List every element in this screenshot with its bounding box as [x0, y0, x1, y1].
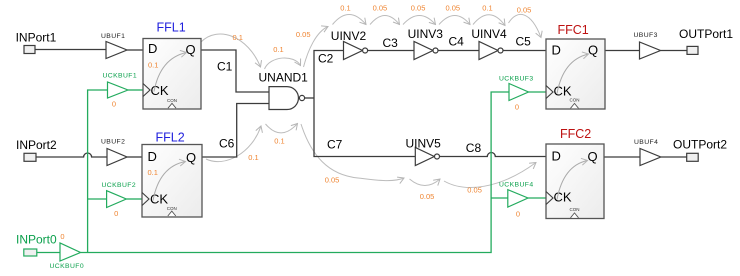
svg-text:0.1: 0.1: [148, 168, 158, 177]
svg-text:CK: CK: [150, 192, 168, 207]
svg-text:C1: C1: [217, 60, 233, 74]
svg-text:Q: Q: [588, 149, 598, 164]
svg-text:UCKBUF4: UCKBUF4: [499, 181, 534, 188]
svg-text:D: D: [148, 41, 157, 56]
svg-text:FFC1: FFC1: [558, 23, 589, 37]
svg-text:0: 0: [516, 210, 520, 219]
svg-text:CK: CK: [554, 83, 572, 98]
svg-text:Q: Q: [588, 43, 598, 58]
svg-text:Q: Q: [186, 42, 196, 57]
svg-text:INPort0: INPort0: [16, 232, 57, 246]
svg-text:OUTPort2: OUTPort2: [673, 138, 727, 152]
svg-text:0.1: 0.1: [274, 137, 284, 146]
svg-text:C8: C8: [466, 141, 482, 155]
svg-text:UNAND1: UNAND1: [259, 70, 309, 84]
svg-text:UINV3: UINV3: [408, 27, 444, 41]
svg-text:UCKBUF0: UCKBUF0: [50, 263, 85, 270]
svg-text:UBUF4: UBUF4: [634, 139, 658, 146]
svg-text:UINV2: UINV2: [331, 29, 367, 43]
svg-text:0.1: 0.1: [340, 3, 350, 12]
svg-text:Q: Q: [186, 150, 196, 165]
svg-text:CON: CON: [167, 206, 177, 211]
svg-text:CON: CON: [570, 207, 580, 212]
svg-text:INPort2: INPort2: [16, 138, 57, 152]
svg-text:CK: CK: [151, 83, 169, 98]
svg-text:0: 0: [515, 103, 519, 112]
svg-text:0: 0: [114, 209, 118, 218]
svg-text:C2: C2: [318, 52, 334, 66]
svg-text:0.05: 0.05: [445, 3, 460, 12]
svg-text:OUTPort1: OUTPort1: [679, 27, 733, 41]
svg-text:D: D: [552, 149, 561, 164]
svg-text:UBUF3: UBUF3: [634, 32, 658, 39]
svg-text:UBUF1: UBUF1: [101, 33, 125, 40]
svg-text:C3: C3: [383, 36, 399, 50]
svg-text:CK: CK: [554, 190, 572, 205]
svg-text:C5: C5: [516, 35, 532, 49]
svg-text:FFL1: FFL1: [157, 20, 186, 34]
svg-text:0.1: 0.1: [248, 153, 258, 162]
svg-text:D: D: [148, 149, 157, 164]
svg-text:0.05: 0.05: [420, 192, 435, 201]
svg-text:0.05: 0.05: [467, 185, 482, 194]
svg-text:0: 0: [60, 232, 64, 241]
svg-text:0.05: 0.05: [325, 176, 340, 185]
svg-text:0: 0: [112, 99, 116, 108]
svg-text:0.1: 0.1: [482, 3, 492, 12]
svg-text:0.1: 0.1: [148, 61, 158, 70]
svg-text:C6: C6: [219, 137, 235, 151]
svg-text:FFC2: FFC2: [560, 127, 591, 141]
svg-text:UBUF2: UBUF2: [101, 139, 125, 146]
svg-text:C4: C4: [449, 35, 465, 49]
svg-text:CON: CON: [167, 98, 177, 103]
svg-text:D: D: [552, 43, 561, 58]
svg-text:CON: CON: [570, 98, 580, 103]
svg-text:UCKBUF1: UCKBUF1: [103, 72, 138, 79]
svg-text:UCKBUF3: UCKBUF3: [499, 75, 534, 82]
svg-text:0.05: 0.05: [296, 30, 311, 39]
svg-text:C7: C7: [327, 138, 343, 152]
svg-text:0.05: 0.05: [373, 3, 388, 12]
svg-text:0.1: 0.1: [273, 45, 283, 54]
svg-text:0.1: 0.1: [232, 33, 242, 42]
svg-text:UINV4: UINV4: [471, 27, 507, 41]
svg-text:UINV5: UINV5: [406, 137, 442, 151]
svg-text:INPort1: INPort1: [16, 30, 57, 44]
svg-text:0.05: 0.05: [517, 6, 532, 15]
svg-text:0.05: 0.05: [411, 3, 426, 12]
svg-text:FFL2: FFL2: [156, 131, 185, 145]
svg-text:UCKBUF2: UCKBUF2: [102, 182, 137, 189]
